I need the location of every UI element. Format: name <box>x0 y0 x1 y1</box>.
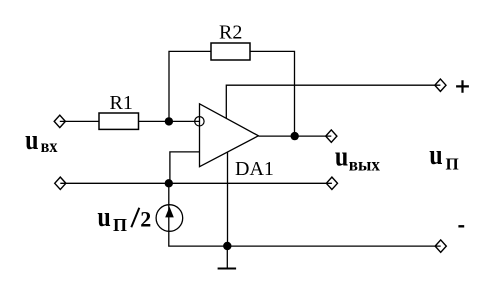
wire negative supply pin <box>227 152 229 246</box>
ground bar <box>218 268 237 270</box>
current source circle <box>156 205 183 232</box>
wire rail input2 <box>60 182 332 184</box>
op-amp DA1 triangle <box>200 104 259 167</box>
resistor R1 <box>99 113 139 129</box>
wire non-inverting input L <box>170 152 200 183</box>
resistor R2 <box>211 43 250 60</box>
wire node A up to R2 left <box>169 51 211 121</box>
wire from node B through current source to bottom rail <box>169 183 441 246</box>
wire input1 to R1 <box>60 120 99 122</box>
terminal plus supply diamond <box>435 79 446 91</box>
label u_vyx <box>335 139 380 174</box>
label minus sign <box>458 225 464 227</box>
svg-text:DA1: DA1 <box>235 158 274 180</box>
svg-text:u: u <box>97 200 111 233</box>
current source arrowhead <box>165 207 174 218</box>
svg-text:R2: R2 <box>219 22 242 44</box>
node B junction dot <box>165 179 173 187</box>
svg-text:u: u <box>25 123 39 156</box>
wire R2 right down to output node <box>250 51 295 136</box>
terminal input2 diamond <box>55 177 66 189</box>
svg-text:2: 2 <box>140 207 151 232</box>
label u_P/2 <box>97 200 151 236</box>
svg-text:u: u <box>335 139 349 172</box>
label plus sign <box>456 80 469 93</box>
wire positive supply rail <box>226 85 440 118</box>
svg-text:П: П <box>113 215 127 235</box>
terminal minus supply diamond <box>435 240 446 252</box>
svg-text:u: u <box>429 138 443 171</box>
svg-text:вых: вых <box>349 154 380 175</box>
label u_P supply <box>429 138 458 173</box>
svg-text:П: П <box>446 154 459 173</box>
bottom rail junction dot <box>223 242 231 250</box>
inverting input circle <box>195 117 204 126</box>
terminal input1 diamond <box>54 115 65 127</box>
node A junction dot <box>165 117 173 125</box>
label u_vx <box>25 123 58 156</box>
ground stub <box>226 246 228 268</box>
terminal rail2 diamond <box>326 177 337 189</box>
svg-text:вх: вх <box>41 136 58 156</box>
wire op-amp output <box>258 135 331 137</box>
wire R1 to inverting input <box>139 120 200 122</box>
svg-text:R1: R1 <box>110 92 133 114</box>
output node junction dot <box>291 132 299 140</box>
terminal output diamond <box>326 130 337 142</box>
